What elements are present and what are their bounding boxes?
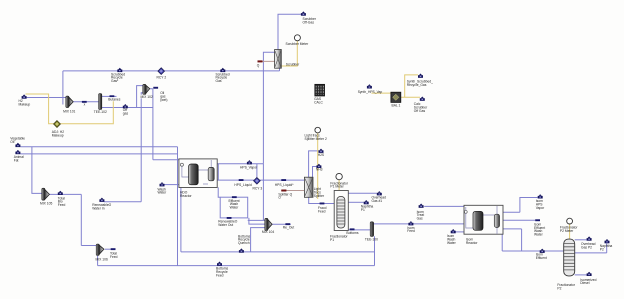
wire isomerized diesel bbox=[575, 274, 587, 276]
stream marker fracd feed bbox=[320, 203, 325, 205]
light fracs splitter column bbox=[304, 177, 313, 197]
energy wire fractionator P2 meter bbox=[569, 224, 571, 239]
label MIX-102 bbox=[140, 95, 152, 99]
stream marker MIX-101 outlet bbox=[82, 101, 87, 103]
stream icon H2S bbox=[319, 149, 324, 153]
stream icon isom wash water bbox=[451, 229, 456, 233]
wire MIX-104 inlet 2 bbox=[249, 218, 265, 224]
svg-text:MIX 104: MIX 104 bbox=[262, 230, 274, 234]
balance BAL-1 bbox=[391, 92, 401, 102]
stream icon isom HPS vapor bbox=[538, 194, 543, 198]
wire isom effluent side branch bbox=[503, 229, 522, 251]
wire feed drop to MIX-105 bbox=[32, 147, 42, 194]
stream icon H2 makeup bbox=[22, 94, 27, 98]
wire butanes bbox=[102, 95, 117, 97]
mixer MIX-105 bbox=[42, 188, 50, 200]
stream icon synth scrubbed recycle gas bbox=[418, 74, 423, 78]
stream marker isom effluent wash water bbox=[535, 219, 540, 221]
wire off gas riser to MIX-102 bbox=[137, 86, 144, 108]
wire isom effluent wash water bbox=[503, 219, 535, 221]
wire HDO box edge stub bbox=[217, 164, 219, 180]
svg-text:Synth_HPS_Vap: Synth_HPS_Vap bbox=[358, 90, 383, 94]
stream icon isomerized diesel bbox=[587, 272, 592, 276]
wire bottoms recycle feed bbox=[98, 236, 375, 265]
svg-text:BottomsRecycleQuench: BottomsRecycleQuench bbox=[238, 234, 250, 245]
svg-text:Splitter Q: Splitter Q bbox=[278, 192, 292, 196]
svg-text:TEE-102: TEE-102 bbox=[94, 110, 107, 114]
energy wire BAL-1 to synth scrubbed recycle gas bbox=[405, 75, 418, 97]
wire H2 makeup to MIX-101 bbox=[27, 97, 67, 99]
svg-text:TEE-100: TEE-100 bbox=[365, 238, 378, 242]
isom reactor sub-flowsheet box bbox=[464, 205, 503, 234]
wire HPS liquid through RCY-3 to splitter bbox=[217, 179, 304, 181]
wire HPS vapor to scrubber bbox=[217, 52, 274, 164]
stream icon isom feed bbox=[408, 221, 413, 225]
wire isom feed TEE-100 to isom reactor bbox=[374, 223, 464, 225]
stream icon calc scrubber off gas bbox=[420, 97, 425, 101]
wire MIX-104 inlet 1 bbox=[248, 219, 265, 221]
heat wire scrubber Q bbox=[258, 60, 275, 62]
wire renewable water in riser to MIX-102 bbox=[104, 93, 143, 202]
stream icon scrubber off-gas bbox=[301, 11, 306, 15]
tee TEE-100 bbox=[370, 222, 373, 237]
svg-text:Q: Q bbox=[257, 63, 260, 67]
svg-text:IsomFeed: IsomFeed bbox=[407, 226, 415, 233]
svg-text:Bottoms: Bottoms bbox=[346, 231, 358, 235]
stream icon scrubbed recycle gas bbox=[220, 68, 225, 72]
svg-text:ADJ: H2Makeup: ADJ: H2Makeup bbox=[52, 130, 64, 137]
wire naphtha P1 bbox=[348, 201, 363, 203]
fractionator P1 meter bbox=[336, 173, 342, 179]
stream marker butanes bbox=[110, 95, 115, 97]
label butanes bbox=[108, 97, 121, 101]
mixer MIX-104 bbox=[265, 218, 272, 230]
wire scrubber off-gas bbox=[278, 14, 301, 49]
energy wire fractionator P1 meter bbox=[338, 180, 340, 191]
svg-text:MIX 106: MIX 106 bbox=[96, 258, 108, 262]
wire Re_Out bbox=[272, 223, 291, 225]
svg-text:Re_Out: Re_Out bbox=[283, 225, 294, 229]
stream icon synth HPS vap bbox=[367, 84, 372, 88]
svg-text:HPS_Vapor: HPS_Vapor bbox=[240, 166, 258, 170]
svg-text:Scrubber Meter: Scrubber Meter bbox=[286, 42, 310, 46]
stream icon wash water bbox=[160, 182, 165, 186]
stream icon overhead gas 1 bbox=[377, 191, 382, 195]
energy wire H2 makeup ADJ loop bbox=[26, 94, 114, 124]
svg-text:MIX 105: MIX 105 bbox=[40, 202, 52, 206]
adjust ADJ H2 makeup bbox=[54, 121, 61, 128]
svg-text:FracdFeed: FracdFeed bbox=[318, 206, 327, 213]
stream icon bottoms recycle quench bbox=[239, 248, 244, 252]
wire overhead gas 1 bbox=[348, 192, 377, 194]
wire MIX-101 to TEE-102 bbox=[73, 101, 98, 103]
tee TEE-102 bbox=[99, 94, 102, 110]
stream icon NH3 bbox=[316, 164, 321, 168]
svg-text:WashWater: WashWater bbox=[158, 187, 168, 194]
stream icon overhead gas P2 bbox=[587, 236, 592, 240]
wire isom treat gas bbox=[424, 205, 464, 207]
svg-text:MIX 102: MIX 102 bbox=[141, 95, 153, 99]
energy wire scrubber meter bbox=[281, 41, 297, 66]
wire splitter bottoms to fractionator P1 bbox=[309, 197, 335, 203]
stream icon total bio feed bbox=[58, 191, 63, 195]
wire effluent wash water loop bbox=[218, 187, 220, 197]
wire oil gas wet: MIX-102 out to HDO reactor bbox=[150, 89, 179, 160]
svg-text:RCY 3: RCY 3 bbox=[253, 187, 263, 191]
stream marker total feed bbox=[111, 248, 116, 250]
wire scrubbed recycle gas bbox=[63, 68, 280, 104]
wire naphtha P2 bbox=[575, 244, 607, 253]
stream icon off gas bbox=[123, 104, 128, 108]
stream icon animal fat bbox=[15, 150, 20, 154]
stream icon isom treat gas bbox=[419, 204, 424, 208]
svg-text:Butanes: Butanes bbox=[108, 97, 120, 101]
mixer MIX-101 bbox=[66, 96, 73, 108]
wire RCY-3 top stub bbox=[256, 164, 258, 177]
stream marker P1 bottoms bbox=[350, 228, 355, 230]
scrubber meter bbox=[294, 35, 300, 41]
stream icon scrubbed recycle gas* bbox=[117, 68, 122, 72]
wire H2S from splitter bbox=[309, 151, 319, 177]
svg-text:NH3: NH3 bbox=[316, 168, 323, 172]
fractionator P1 box bbox=[334, 191, 348, 231]
stream marker effluent wash water bottom bbox=[227, 217, 232, 219]
wire wash water into HDO bbox=[164, 184, 179, 186]
wire P1 bottoms to TEE-100 bbox=[348, 229, 370, 231]
energy wire BAL-1 to calc scrubber off gas bbox=[401, 96, 420, 98]
svg-text:BAL 1: BAL 1 bbox=[392, 104, 401, 108]
stream marker HPS liquid star bbox=[281, 179, 286, 181]
svg-text:RCY 2: RCY 2 bbox=[157, 75, 167, 79]
wire bottoms recycle quench bbox=[181, 188, 375, 252]
stream icon renewable water in bbox=[99, 198, 104, 202]
wire total feed out of MIX-106 bbox=[105, 248, 115, 250]
HDO reactor sub-flowsheet box bbox=[179, 159, 217, 188]
svg-text:H2S: H2S bbox=[318, 153, 325, 157]
stream icon HPS vapor bbox=[247, 160, 252, 164]
wire isom HPS vapor bbox=[503, 198, 538, 213]
wire isom effluent to fractionator P2 bbox=[502, 234, 564, 251]
energy wire synth HPS vap to BAL-1 bbox=[371, 92, 391, 94]
energy wire splitter meter 2 bbox=[317, 133, 319, 199]
fractionator P2 meter bbox=[567, 218, 573, 224]
splitter meter 2 bbox=[315, 127, 321, 133]
stream marker HPS liquid bbox=[239, 179, 244, 181]
wire total bio feed MIX-105 to MIX-106 bbox=[49, 194, 97, 245]
wire HPS vapor branch down to MIX-104 bbox=[262, 164, 264, 221]
wire animal fat bbox=[21, 153, 178, 155]
spreadsheet GAS CALC bbox=[315, 84, 325, 96]
fractionator P2 column bbox=[564, 239, 575, 276]
wire NH3 from splitter bbox=[313, 167, 317, 178]
recycle RCY-2 bbox=[158, 68, 165, 75]
stream marker oil gas wet bbox=[153, 87, 158, 89]
wire vegetable oil bbox=[21, 146, 178, 148]
svg-text:Scrubber: Scrubber bbox=[286, 63, 300, 67]
wire overhead gas P2 bbox=[575, 239, 587, 241]
svg-text:HPS_Liquid: HPS_Liquid bbox=[234, 183, 252, 187]
heat wire splitter Q bbox=[281, 190, 304, 192]
svg-text:TotalFeed: TotalFeed bbox=[110, 252, 118, 259]
svg-text:HPS_Liquid*: HPS_Liquid* bbox=[275, 183, 294, 187]
svg-text:EffluentWashWater: EffluentWashWater bbox=[228, 199, 239, 210]
svg-text:MIX 101: MIX 101 bbox=[63, 110, 75, 114]
effluent wash water frame bbox=[220, 197, 248, 218]
scrubber column bbox=[275, 50, 282, 69]
stream icon vegetable oil bbox=[15, 143, 20, 147]
stream marker Re_Out bbox=[285, 223, 290, 225]
recycle RCY-3 bbox=[254, 178, 261, 185]
stream icon naphtha P1 bbox=[364, 200, 369, 204]
stream icon bottoms recycle feed bbox=[217, 262, 222, 266]
stream marker effluent wash water top bbox=[232, 196, 237, 198]
mixer MIX-102 bbox=[143, 84, 150, 94]
wire isom wash water bbox=[456, 231, 465, 233]
wire MIX-104 inlet 3 from quench bbox=[251, 228, 266, 252]
wire off gas bbox=[102, 107, 153, 109]
mixer MIX-106 bbox=[96, 244, 104, 256]
wire oil feed vertical at HDO box edge bbox=[177, 147, 179, 266]
stream icon isom effluent bbox=[540, 249, 545, 253]
stream icon naphtha P2 bbox=[605, 239, 610, 243]
